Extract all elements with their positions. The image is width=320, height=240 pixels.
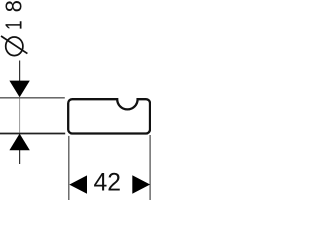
svg-text:1: 1: [1, 20, 27, 30]
svg-text:42: 42: [94, 168, 122, 196]
svg-text:8: 8: [1, 0, 27, 12]
